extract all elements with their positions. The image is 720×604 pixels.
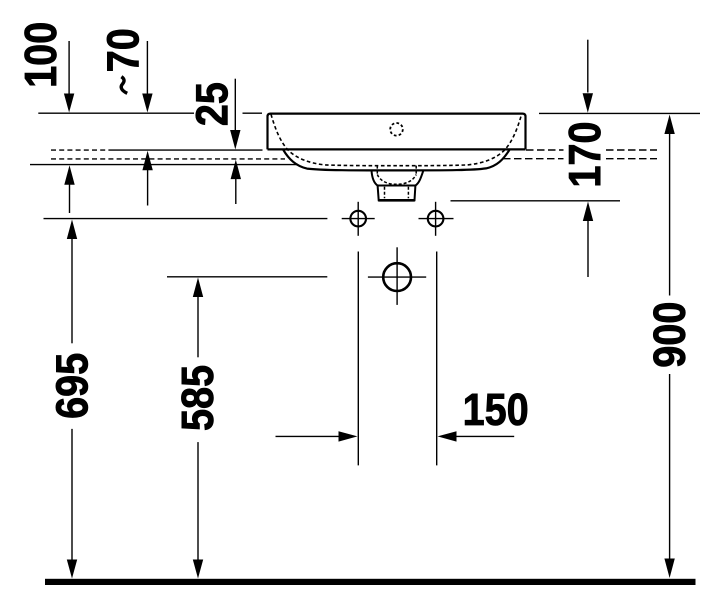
dimension label approx-tilde (121, 77, 127, 94)
dimension label 100 (25, 23, 57, 85)
drain funnel outline (372, 170, 424, 185)
wall line dashed right part1 (503, 158, 564, 160)
dim 585 up arrow (193, 278, 203, 358)
top reference line left segment 1 (38, 112, 194, 114)
shelf line dashed right of basin part2 (606, 149, 657, 151)
dim 170 down arrow (583, 40, 593, 113)
dimension label 150 (465, 393, 527, 425)
mounting hole axis line (44, 218, 328, 220)
drain hidden right vertical (415, 166, 417, 175)
dim 150 right arrow (438, 431, 515, 441)
dim 100 down arrow (64, 41, 74, 113)
right mounting hole cross horizontal (419, 218, 454, 220)
overflow hole dashed circle (390, 123, 403, 136)
floor line (45, 579, 696, 585)
left tap centerline (357, 252, 359, 466)
faucet hole circle (383, 263, 411, 291)
585 top reference line (167, 276, 327, 278)
shelf line dashed left part (51, 149, 110, 151)
drain neck hidden left vertical (384, 187, 386, 198)
dimension label 25 (196, 83, 228, 125)
basin rim bottom edge (268, 148, 526, 150)
top reference line right segment (539, 112, 700, 114)
dim 25 up arrow (231, 160, 241, 204)
dimension label 900 (653, 303, 685, 366)
wall line dashed right part2 (606, 158, 657, 160)
faucet hole cross horizontal (368, 276, 426, 278)
shelf line dashed right of basin part1 (526, 149, 564, 151)
basin rim outline (268, 114, 526, 150)
dim ~70 down arrow (142, 41, 152, 113)
faucet hole cross vertical (396, 247, 398, 305)
dimension label 585 (181, 366, 213, 430)
dimension label 70 (107, 30, 139, 71)
drain hidden bowl arc (377, 175, 416, 185)
dim 695 up arrow (67, 220, 77, 344)
dim 585 down arrow (193, 442, 203, 578)
dimension label 170 (569, 123, 601, 185)
left mounting hole circle (350, 211, 366, 227)
dim 900 up arrow (664, 115, 674, 296)
right mounting hole cross vertical (435, 202, 437, 236)
drain neck bottom edge (378, 199, 415, 202)
shelf line solid part (110, 149, 263, 151)
dim 695 down arrow (67, 429, 77, 579)
drain hidden left vertical (376, 166, 378, 175)
left mounting hole cross horizontal (342, 218, 375, 220)
right mounting hole circle (428, 211, 444, 227)
drain neck outline (378, 186, 416, 201)
basin inner rim hidden curve (271, 114, 522, 165)
right tap centerline (436, 252, 438, 466)
dim 150 left arrow (276, 431, 358, 441)
left mounting hole cross vertical (357, 202, 359, 236)
dimension label 695 (56, 354, 88, 418)
wall line dashed left (51, 158, 285, 160)
basin bowl outer curve (283, 149, 510, 170)
drain neck hidden right vertical (407, 187, 409, 198)
dim 25 down arrow (230, 79, 240, 150)
dim 100 up arrow (64, 165, 74, 213)
lower reference solid line left (30, 164, 298, 166)
dim ~70 up arrow (142, 151, 152, 206)
top reference line left segment 2 (243, 112, 263, 114)
dim 900 down arrow (664, 374, 674, 578)
dim 170 up arrow (583, 202, 593, 278)
170 bottom reference line (451, 200, 621, 202)
